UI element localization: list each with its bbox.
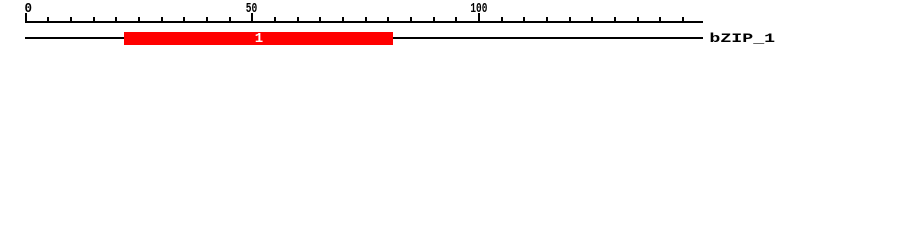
minor tick 45: [229, 17, 231, 23]
minor tick 65: [319, 17, 321, 23]
minor tick 90: [433, 17, 435, 23]
minor tick 105: [501, 17, 503, 23]
minor tick 110: [523, 17, 525, 23]
svg-text:1: 1: [255, 31, 263, 47]
minor tick 30: [161, 17, 163, 23]
minor tick 130: [614, 17, 616, 23]
domain box 1 (bZIP_1): [124, 32, 393, 45]
minor tick 15: [93, 17, 95, 23]
svg-text:bZIP_1: bZIP_1: [709, 31, 775, 46]
minor tick 5: [47, 17, 49, 23]
protein/domain name bZIP_1: [709, 31, 775, 46]
minor tick 10: [70, 17, 72, 23]
minor tick 80: [387, 17, 389, 23]
minor tick 35: [183, 17, 185, 23]
background: [0, 0, 900, 58]
minor tick 135: [637, 17, 639, 23]
minor tick 70: [342, 17, 344, 23]
minor tick 85: [410, 17, 412, 23]
minor tick 125: [591, 17, 593, 23]
minor tick 55: [274, 17, 276, 23]
major tick 0: [25, 13, 27, 23]
minor tick 75: [365, 17, 367, 23]
minor tick 20: [115, 17, 117, 23]
minor tick 25: [138, 17, 140, 23]
minor tick 145: [682, 17, 684, 23]
minor tick 120: [569, 17, 571, 23]
major tick 50: [251, 13, 253, 23]
minor tick 140: [659, 17, 661, 23]
sequence line: [25, 37, 703, 39]
major tick 100: [478, 13, 480, 23]
ruler axis line: [25, 21, 703, 23]
minor tick 95: [455, 17, 457, 23]
minor tick 60: [297, 17, 299, 23]
minor tick 115: [546, 17, 548, 23]
minor tick 40: [206, 17, 208, 23]
